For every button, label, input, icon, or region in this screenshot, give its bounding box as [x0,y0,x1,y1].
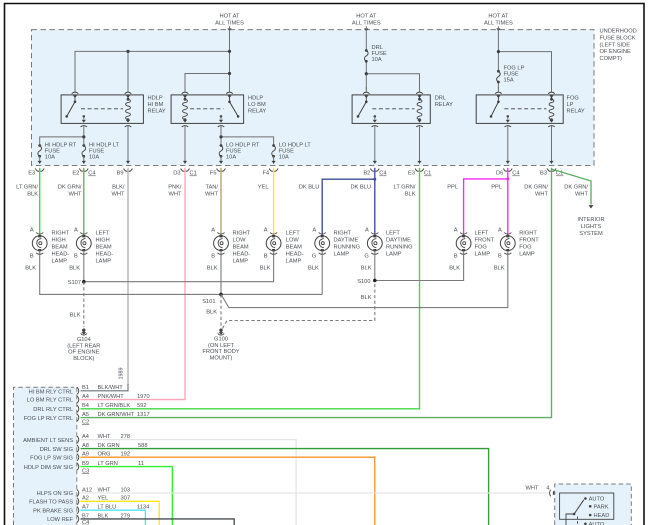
wire to connector B2/C4 [374,126,376,163]
svg-text:FOG LP SW SIG: FOG LP SW SIG [30,455,73,461]
svg-text:A: A [312,228,316,234]
svg-text:AMBIENT LT SENS: AMBIENT LT SENS [23,438,73,444]
node HOT AT ALL TIMES feed x=229.5 [215,14,244,32]
wire BLK S100 bus to left fog lamp [375,251,464,281]
wire lo-beam relay coil feed [185,74,230,91]
wire DK GRN/WHT branch to interior lights [552,169,592,205]
svg-text:HEAD-: HEAD- [286,251,304,257]
svg-text:FRONT: FRONT [475,237,495,243]
connector B3/C1 at fuse block [540,161,563,177]
switch positions AUTO/PARK/HEAD [584,497,609,525]
svg-text:HOT AT: HOT AT [219,14,240,20]
svg-text:10A: 10A [279,155,289,161]
svg-text:HEAD-: HEAD- [233,251,251,257]
svg-text:BLK: BLK [206,309,217,315]
wire to connector E3/C1 [419,126,421,163]
svg-text:BLK: BLK [207,265,218,271]
wire to connector B9 [127,126,129,163]
svg-text:PNK/: PNK/ [168,184,182,190]
svg-text:BLK/: BLK/ [112,184,125,190]
svg-text:B: B [30,254,34,260]
wire lo-beam output bus to fuses [220,126,222,137]
fuse LO HDLP RT FUSE 10A [219,143,260,161]
node junction hot/hi bus [228,50,231,53]
wire hi-beam output bus to fuses [83,126,85,137]
fuse FOG LP FUSE 15A [497,66,525,84]
svg-text:(LEFT SIDE: (LEFT SIDE [600,42,631,48]
wire BLK/WHT B9 to BCM B1 [127,168,129,385]
pin A8 DK GRN (DRL SW SIG) [40,443,148,453]
svg-text:LAMP: LAMP [386,251,402,257]
svg-text:B4: B4 [82,403,89,409]
svg-text:BLOCK): BLOCK) [73,356,94,362]
wire to connector F5 [220,156,222,163]
svg-text:HEAD-: HEAD- [96,251,114,257]
connector B2/C4 at fuse block [363,161,386,177]
fuse LO HDLP LT FUSE 10A [272,143,311,161]
svg-text:RIGHT: RIGHT [334,230,352,236]
svg-text:B3: B3 [540,171,547,177]
wire DK BLU to daytime running lamps [374,168,376,236]
connector E3/C1 at fuse block [408,161,431,177]
svg-text:BLK: BLK [260,265,271,271]
svg-text:ALL TIMES: ALL TIMES [484,21,513,27]
svg-text:LOW REF: LOW REF [47,517,73,523]
svg-text:HDLP DIM SW SIG: HDLP DIM SW SIG [24,465,73,471]
relay HDLP LO BM RELAY [171,87,266,127]
svg-text:LEFT: LEFT [96,230,110,236]
svg-text:DK GRN/: DK GRN/ [524,184,548,190]
svg-text:DK GRN/: DK GRN/ [564,184,588,190]
svg-text:LAMP: LAMP [519,251,535,257]
svg-text:LIGHTS: LIGHTS [581,224,602,230]
svg-text:A4: A4 [82,394,89,400]
wire dashed to lower switch section [577,517,579,525]
wire WHT 103 (hlps on sig) [81,492,549,494]
connector E2/C4 at fuse block [72,161,95,177]
svg-text:HEAD-: HEAD- [52,251,70,257]
wire HOT feed 3 (FOG LP) [497,26,499,72]
svg-text:F5: F5 [210,171,217,177]
svg-text:LT GRN/: LT GRN/ [16,184,38,190]
BCM connector face line [76,387,78,525]
svg-text:D6: D6 [496,171,503,177]
wire YEL to left low beam [273,168,275,236]
node splice S100 [373,279,377,283]
svg-text:A: A [454,228,458,234]
wire to connector F4 [273,156,275,163]
wire LT GRN/BLK E3/C1 to BCM B4 [81,168,420,409]
svg-text:LAMP: LAMP [233,258,249,264]
svg-text:A5: A5 [82,412,89,418]
svg-text:S107: S107 [68,280,81,286]
switch arm [566,500,584,525]
svg-text:1989: 1989 [119,368,125,380]
svg-text:LEFT: LEFT [386,230,400,236]
svg-text:(ON LEFT: (ON LEFT [208,343,234,349]
wire BLK S101 bus to right fog lamp [221,251,508,308]
svg-text:LAMP: LAMP [475,251,491,257]
svg-text:F4: F4 [262,171,269,177]
svg-text:LT GRN/: LT GRN/ [394,184,416,190]
svg-text:HOT AT: HOT AT [488,14,509,20]
lamp LEFT HIGH BEAM HEAD LAMP [74,228,113,265]
lamp LEFT FRONT FOG LAMP [454,228,495,260]
svg-text:BLK: BLK [449,265,460,271]
lamp RIGHT FRONT FOG LAMP [498,228,539,260]
svg-text:WHT: WHT [169,191,182,197]
svg-text:LO BM: LO BM [248,102,266,108]
svg-text:15A: 15A [504,78,514,84]
svg-text:DK BLU: DK BLU [350,184,371,190]
svg-text:1970: 1970 [137,394,150,400]
svg-text:HDLP: HDLP [248,96,263,102]
svg-text:B1: B1 [82,385,89,391]
fuse DRL FUSE 10A [365,45,387,63]
svg-text:RUNNING: RUNNING [334,244,361,250]
svg-text:COMPT): COMPT) [600,56,623,62]
node junction FOG feed [497,50,500,53]
svg-text:(LEFT REAR: (LEFT REAR [67,343,100,349]
svg-text:PPL: PPL [491,184,502,190]
svg-text:LOW: LOW [233,237,247,243]
svg-text:BLK: BLK [405,191,416,197]
svg-text:BLK: BLK [25,265,36,271]
pin A4 PNK/WHT (LO BM RLY CTRL) [27,394,150,404]
svg-text:RIGHT: RIGHT [233,230,251,236]
wire DK GRN/WHT B3/C1 to BCM A5 [81,168,552,418]
svg-text:BLK: BLK [27,191,38,197]
svg-text:S100: S100 [357,279,370,285]
node arrow to interior lights system [0,0,605,237]
lamp LEFT DAYTIME RUNNING LAMP [364,228,412,260]
svg-text:OF ENGINE: OF ENGINE [68,350,99,356]
connector E3 at fuse block [28,161,44,177]
svg-text:E2: E2 [72,171,79,177]
inline connector WHT wire pin 4 [526,486,557,497]
wire PPL to fog lamps [507,168,509,236]
wire BLK right DRL lamp to ground bus [321,251,323,295]
svg-text:G: G [312,254,316,260]
svg-text:HIGH: HIGH [96,237,110,243]
wire FOG fuse to relay [497,81,499,90]
svg-text:DK GRN/: DK GRN/ [58,184,82,190]
svg-text:FOG LP RLY CTRL: FOG LP RLY CTRL [24,416,73,422]
svg-text:DRL RLY CTRL: DRL RLY CTRL [33,407,73,413]
svg-text:ALL TIMES: ALL TIMES [352,21,381,27]
svg-text:10A: 10A [45,155,55,161]
svg-text:ALL TIMES: ALL TIMES [215,21,244,27]
svg-text:WHT: WHT [575,191,588,197]
svg-text:DRL: DRL [435,96,446,102]
svg-text:RELAY: RELAY [248,109,266,115]
svg-text:C1: C1 [424,171,431,177]
svg-text:WHT: WHT [205,191,218,197]
lamp LEFT LOW BEAM HEAD LAMP [264,228,304,265]
svg-text:A: A [30,228,34,234]
svg-text:BLK: BLK [494,265,505,271]
wire DK GRN 588 (drl sw sig) [81,449,489,525]
svg-text:10A: 10A [372,57,382,63]
svg-text:592: 592 [137,403,147,409]
svg-text:A: A [211,228,215,234]
wire HOT feed 1 (HDLP relays) [229,26,231,90]
pin B7 BLK (LOW REF) [47,513,130,523]
relay DRL RELAY [352,87,453,127]
svg-text:A: A [365,228,369,234]
svg-text:SYSTEM: SYSTEM [579,231,603,237]
svg-text:C4: C4 [82,520,89,525]
ground G104 [67,329,100,362]
svg-text:INTERIOR: INTERIOR [577,217,604,223]
wire DRL coil feed branch [366,74,419,91]
wire DRL fuse to relay [365,61,367,90]
svg-text:OF ENGINE: OF ENGINE [600,49,631,55]
svg-text:D3: D3 [173,171,180,177]
svg-text:BLK/WHT: BLK/WHT [98,385,124,391]
svg-text:B: B [264,254,268,260]
svg-text:LO BM RLY CTRL: LO BM RLY CTRL [27,398,73,404]
svg-text:4: 4 [546,486,549,492]
svg-text:C4: C4 [512,171,519,177]
relay FOG LP RELAY [476,87,585,127]
svg-text:WHT: WHT [69,191,82,197]
svg-text:RUNNING: RUNNING [386,244,413,250]
svg-text:PK BRAKE SIG: PK BRAKE SIG [33,508,73,514]
svg-text:G: G [364,254,368,260]
svg-text:BLK: BLK [361,265,372,271]
svg-text:E3: E3 [28,171,35,177]
connector C2 BCM [82,419,89,425]
svg-text:C2: C2 [82,419,89,425]
svg-text:B: B [454,254,458,260]
wire LT GRN 11 (hdlp dim sw sig) [81,467,173,525]
svg-text:BEAM: BEAM [233,244,249,250]
wire to connector D3/C1 [184,126,186,163]
pin A9 ORG (FOG LP SW SIG) [30,452,130,462]
svg-text:B: B [74,254,78,260]
svg-text:LEFT: LEFT [286,230,300,236]
lamp RIGHT DAYTIME RUNNING LAMP [312,228,360,260]
svg-text:MOUNT): MOUNT) [210,355,233,361]
svg-text:A: A [74,228,78,234]
svg-text:LT GRN/BLK: LT GRN/BLK [98,403,131,409]
svg-text:PNK/WHT: PNK/WHT [98,394,125,400]
svg-text:FRONT: FRONT [519,237,539,243]
svg-text:WHT: WHT [112,191,125,197]
wire to connector E2/C4 [83,156,85,163]
headlamp switch inner box [560,493,614,519]
svg-text:B9: B9 [117,171,124,177]
wire BLK dashed S107 to G104 [83,282,85,328]
svg-text:HEAD: HEAD [594,513,610,519]
lamp RIGHT HIGH BEAM HEAD LAMP [30,228,70,265]
svg-text:A: A [264,228,268,234]
pin B1 BLK/WHT (HI BM RLY CTRL) [29,385,124,395]
svg-text:BEAM: BEAM [96,244,112,250]
svg-text:10A: 10A [89,155,99,161]
wire TAN/WHT to right low beam [220,168,222,236]
pin A7 LT BLU (PK BRAKE SIG) [33,505,149,515]
node junction hi fuse bus [82,135,85,138]
svg-text:RIGHT: RIGHT [519,230,537,236]
wire to connector D6/C4 [507,126,509,163]
svg-text:FOG: FOG [567,96,579,102]
relay HDLP HI BM RELAY [61,87,166,127]
svg-text:BLK: BLK [308,265,319,271]
pin A2 YEL (FLASH TO PASS) [29,496,130,506]
svg-text:LAMP: LAMP [334,251,350,257]
wire DK GRN/WHT to left high beam [83,168,85,236]
svg-text:HLPS ON SIG: HLPS ON SIG [37,491,73,497]
svg-text:WHT: WHT [535,191,548,197]
svg-text:G100: G100 [214,337,228,343]
node junction DRL feed [365,72,368,75]
svg-text:PPL: PPL [447,184,458,190]
svg-text:RELAY: RELAY [435,102,453,108]
svg-text:RELAY: RELAY [148,109,166,115]
svg-text:PARK: PARK [594,505,609,511]
wire hi-beam relay feed bus [75,51,230,90]
wire HOT feed 2 (DRL fuse) [365,26,367,50]
connector C3 BCM [82,468,89,474]
wire BLK dashed G100 to S100 [223,283,375,329]
node junction hi-bm coil tap [126,50,129,53]
connector D3/C1 at fuse block [173,161,197,177]
svg-text:AUTO: AUTO [589,497,605,503]
wire BLK dashed S101 to G100 [220,294,222,327]
connector F5 at fuse block [210,161,226,177]
svg-text:LAMP: LAMP [96,258,112,264]
svg-text:C3: C3 [82,468,89,474]
wire LT GRN/BLK to right high beam [39,168,41,236]
svg-text:LAMP: LAMP [52,258,68,264]
svg-text:C1: C1 [190,171,197,177]
wire LT BLU 1134 (pk brake sig) [81,510,146,525]
svg-text:BEAM: BEAM [286,244,302,250]
svg-text:YEL: YEL [258,184,269,190]
svg-text:G104: G104 [77,337,91,343]
wire BLK left high beam to S107 [83,251,85,282]
node HOT AT ALL TIMES feed x=366.3 [352,14,381,32]
svg-text:LP: LP [567,102,574,108]
svg-text:WHT: WHT [526,486,539,492]
wire FOG LP coil feed branch [498,52,551,91]
pin A4 WHT (AMBIENT LT SENS) [23,434,130,444]
svg-text:UNDERHOOD: UNDERHOOD [600,29,637,35]
svg-text:FOG: FOG [519,244,531,250]
svg-text:1317: 1317 [137,412,150,418]
svg-text:FUSE BLOCK: FUSE BLOCK [600,35,636,41]
wire BLK left low beam to S107 bus [84,251,274,282]
svg-text:BLK: BLK [70,312,81,318]
svg-text:LOW: LOW [286,237,300,243]
node junction lo fuse bus [219,135,222,138]
wire PNK/WHT D3/C1 to BCM A4 [81,168,186,400]
svg-text:FLASH TO PASS: FLASH TO PASS [29,500,73,506]
svg-text:FRONT BODY: FRONT BODY [202,349,239,355]
svg-text:B: B [211,254,215,260]
svg-text:DK BLU: DK BLU [299,184,320,190]
wire ORG 192 (fog lp sw sig) [81,457,375,525]
svg-text:TAN/: TAN/ [205,184,218,190]
svg-text:FOG: FOG [475,244,487,250]
node HOT AT ALL TIMES feed x=498.4 [484,14,513,32]
wire WHT 278 (ambient lt sens) [81,440,297,525]
svg-text:E3: E3 [408,171,415,177]
svg-text:LEFT: LEFT [475,230,489,236]
svg-text:DAYTIME: DAYTIME [386,237,411,243]
wire BLK left DRL lamp to S100 [374,251,376,281]
svg-text:DK GRN/WHT: DK GRN/WHT [98,412,135,418]
node splice S107 [82,280,86,284]
svg-text:A: A [498,228,502,234]
underhood fuse block (shaded box) [32,30,595,166]
svg-text:10A: 10A [226,155,236,161]
headlamp switch (shaded box) [555,484,632,525]
wire to connector B3/C1 [551,126,553,163]
svg-text:HIGH: HIGH [52,237,66,243]
pin A5 DK GRN/WHT (FOG LP RLY CTRL) [24,412,150,422]
body control module (shaded box) [14,387,77,525]
svg-text:HOT AT: HOT AT [356,14,377,20]
svg-text:BEAM: BEAM [52,244,68,250]
lamp RIGHT LOW BEAM HEAD LAMP [211,228,251,265]
node junction hot/lo bus [228,72,231,75]
wire BLK right high beam to ground bus [40,251,323,295]
svg-text:RELAY: RELAY [567,109,585,115]
svg-text:LAMP: LAMP [286,258,302,264]
connector D6/C4 at fuse block [496,161,520,177]
fuse HI HDLP LT FUSE 10A [82,143,120,161]
connector F4 at fuse block [262,161,278,177]
wire BLK right low beam to S101 [220,251,222,295]
svg-text:B2: B2 [363,171,370,177]
svg-text:BLK: BLK [361,295,372,301]
connector B9 at fuse block [117,161,133,177]
svg-text:HI BM RLY CTRL: HI BM RLY CTRL [29,389,73,395]
svg-text:C4: C4 [379,171,386,177]
wire YEL 307 (flash to pass) [81,501,160,525]
pin A12 WHT (HLPS ON SIG) [37,487,130,497]
svg-text:BLK: BLK [69,265,80,271]
pin B9 LT GRN (HDLP DIM SW SIG) [24,461,144,471]
svg-text:RIGHT: RIGHT [52,230,70,236]
wire to connector E3 [39,156,41,163]
svg-text:DRL SW SIG: DRL SW SIG [40,447,73,453]
node splice S101 [219,293,223,297]
pin B4 LT GRN/BLK (DRL RLY CTRL) [33,403,146,413]
svg-text:HI BM: HI BM [148,102,164,108]
label: underhood fuse block [600,29,637,63]
svg-text:B: B [498,254,502,260]
svg-text:DAYTIME: DAYTIME [334,237,359,243]
connector C4 BCM [82,520,89,525]
fuse HI HDLP RT FUSE 10A [38,143,77,161]
ground G100 [202,329,239,362]
wire WHT into switch [556,492,560,494]
svg-text:S101: S101 [202,299,215,305]
wire BLK 279 (low ref) [81,519,235,525]
svg-text:HDLP: HDLP [148,96,163,102]
svg-text:C4: C4 [88,171,95,177]
